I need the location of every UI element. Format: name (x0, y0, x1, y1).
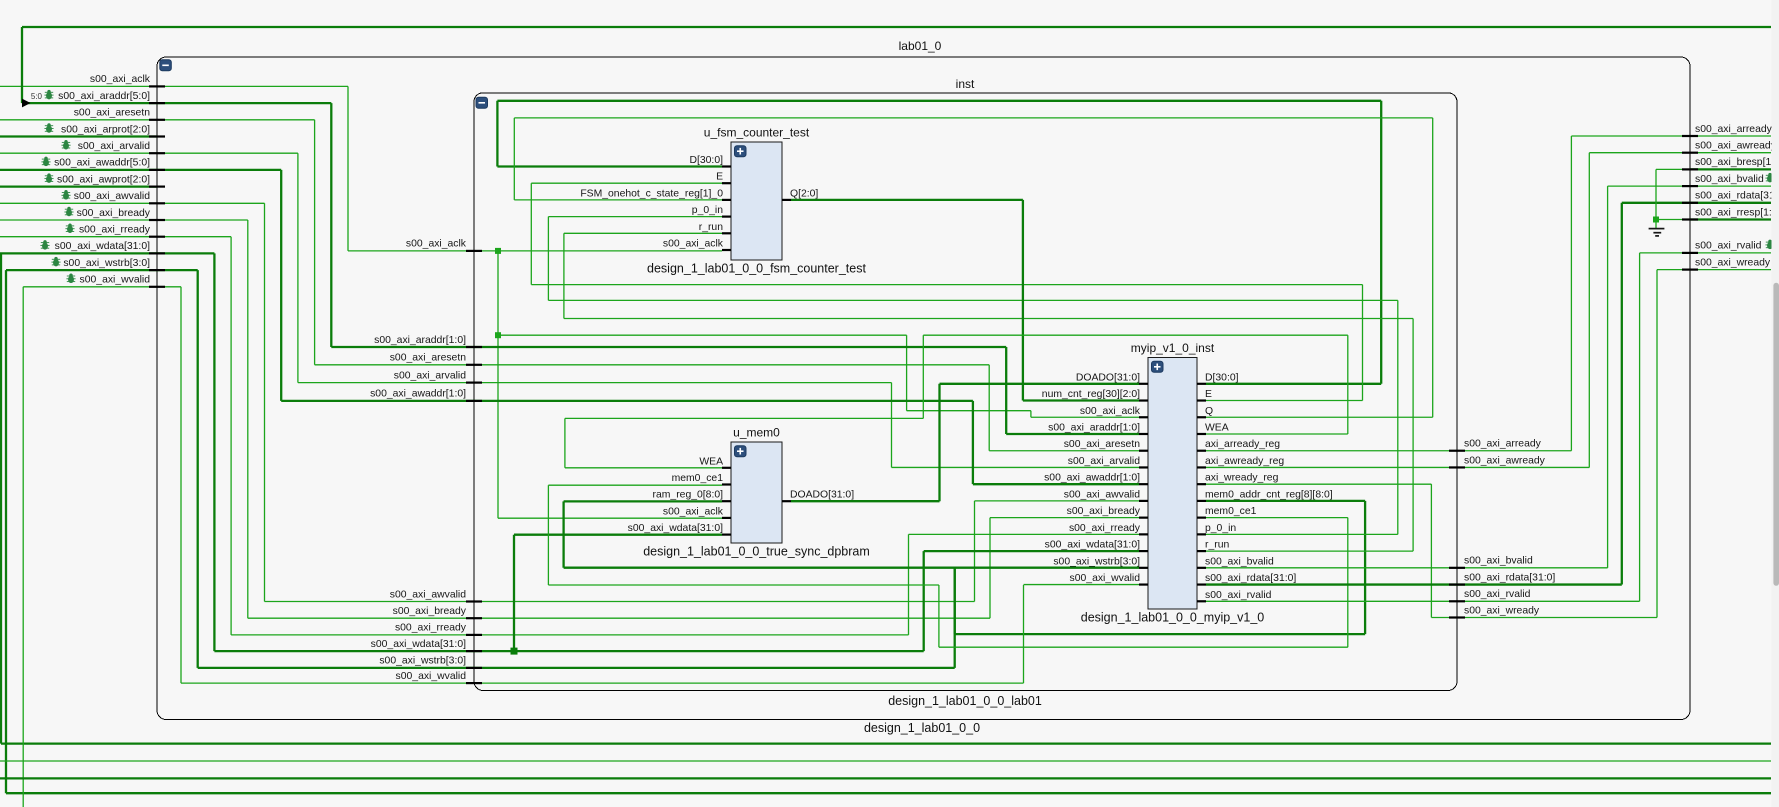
wire s00_axi_wvalid net (23, 286, 157, 288)
svg-text:s00_axi_wvalid: s00_axi_wvalid (1070, 573, 1141, 584)
block u_mem0 (731, 442, 782, 543)
svg-text:s00_axi_rready: s00_axi_rready (1069, 523, 1141, 534)
wire s00_axi_araddr bus (22, 102, 157, 104)
svg-text:s00_axi_aclk: s00_axi_aclk (663, 239, 724, 250)
svg-text:s00_axi_awprot[2:0]: s00_axi_awprot[2:0] (57, 174, 150, 185)
svg-text:axi_awready_reg: axi_awready_reg (1205, 456, 1284, 467)
svg-text:lab01_0: lab01_0 (899, 39, 942, 53)
svg-text:r_run: r_run (1205, 540, 1229, 551)
pins myip_v1_0_inst left (1139, 383, 1148, 385)
wire mem0_ce1 row net (548, 584, 939, 586)
svg-text:Q: Q (1205, 406, 1213, 417)
wire thin U net (938, 585, 940, 647)
wire rvalid net (1206, 600, 1640, 602)
wire s00_axi_awprot stub (0, 185, 157, 187)
svg-text:design_1_lab01_0_0_fsm_counter: design_1_lab01_0_0_fsm_counter_test (647, 262, 866, 276)
wire s00_axi_arvalid net (0, 152, 157, 154)
svg-text:s00_axi_awready: s00_axi_awready (1464, 455, 1546, 466)
block u_fsm_counter_test (731, 142, 782, 260)
svg-text:Q[2:0]: Q[2:0] (790, 188, 818, 199)
svg-text:E: E (716, 172, 723, 183)
wire s00_axi_awvalid net (0, 202, 157, 204)
svg-text:s00_axi_araddr[5:0]: s00_axi_araddr[5:0] (58, 91, 150, 102)
svg-text:s00_axi_rvalid: s00_axi_rvalid (1695, 241, 1762, 252)
pins u_fsm_counter_test right (782, 199, 791, 201)
svg-text:inst: inst (956, 77, 975, 91)
svg-text:s00_axi_wready: s00_axi_wready (1464, 605, 1540, 616)
svg-text:s00_axi_aresetn: s00_axi_aresetn (74, 108, 150, 119)
wire s00_axi_arprot stub (0, 135, 157, 137)
svg-text:num_cnt_reg[30][2:0]: num_cnt_reg[30][2:0] (1042, 389, 1140, 400)
wire fsm Q out bus (791, 199, 1023, 201)
wire wvalid bottom wrap net (22, 287, 24, 807)
wire s00_axi_wdata bus (0, 252, 157, 254)
svg-text:E: E (1205, 389, 1212, 400)
debug bug rvalid (1765, 240, 1774, 249)
wire wdata bottom wrap bus (0, 253, 2, 743)
collapse button inner (476, 97, 488, 108)
svg-text:p_0_in: p_0_in (692, 205, 723, 216)
svg-text:s00_axi_awaddr[1:0]: s00_axi_awaddr[1:0] (370, 389, 466, 400)
svg-text:s00_axi_rvalid: s00_axi_rvalid (1464, 589, 1531, 600)
svg-text:r_run: r_run (699, 222, 723, 233)
svg-text:s00_axi_awready: s00_axi_awready (1695, 141, 1777, 152)
svg-text:FSM_onehot_c_state_reg[1]_0: FSM_onehot_c_state_reg[1]_0 (580, 188, 723, 199)
svg-text:s00_axi_wdata[31:0]: s00_axi_wdata[31:0] (1045, 540, 1140, 551)
svg-text:design_1_lab01_0_0_myip_v1_0: design_1_lab01_0_0_myip_v1_0 (1081, 610, 1265, 624)
svg-text:p_0_in: p_0_in (1205, 523, 1236, 534)
wire s00_axi_rready net (0, 236, 157, 238)
svg-text:s00_axi_arvalid: s00_axi_arvalid (1068, 456, 1140, 467)
scrollbar track (1772, 0, 1779, 807)
svg-text:s00_axi_wvalid: s00_axi_wvalid (396, 671, 467, 682)
svg-text:s00_axi_wdata[31:0]: s00_axi_wdata[31:0] (371, 639, 466, 650)
wire s00_axi_awaddr bus (0, 169, 157, 171)
inner left pin ticks (466, 250, 482, 252)
svg-text:axi_wready_reg: axi_wready_reg (1205, 473, 1279, 484)
wire mem0_ce1 out net (1206, 517, 1348, 519)
wire fsm r_run net (564, 232, 722, 234)
svg-text:s00_axi_rdata[31:0]: s00_axi_rdata[31:0] (1205, 573, 1296, 584)
svg-text:DOADO[31:0]: DOADO[31:0] (1076, 372, 1140, 383)
svg-text:s00_axi_awaddr[1:0]: s00_axi_awaddr[1:0] (1044, 473, 1140, 484)
svg-text:s00_axi_wvalid: s00_axi_wvalid (80, 275, 151, 286)
svg-text:WEA: WEA (1205, 422, 1229, 433)
pins u_mem0 left (722, 467, 731, 469)
svg-text:s00_axi_bready: s00_axi_bready (393, 606, 467, 617)
svg-text:s00_axi_bvalid: s00_axi_bvalid (1464, 556, 1533, 567)
wire DOADO bus (791, 500, 940, 502)
wire araddr top wrap bus (22, 26, 1771, 28)
svg-text:s00_axi_rdata[31:0]: s00_axi_rdata[31:0] (1464, 572, 1555, 583)
svg-text:axi_arready_reg: axi_arready_reg (1205, 439, 1280, 450)
svg-text:D[30:0]: D[30:0] (689, 155, 723, 166)
block myip_v1_0_inst (1148, 358, 1197, 609)
hierarchy box inst (474, 93, 1457, 691)
svg-text:s00_axi_wdata[31:0]: s00_axi_wdata[31:0] (628, 523, 723, 534)
svg-text:s00_axi_bready: s00_axi_bready (77, 208, 151, 219)
svg-text:s00_axi_aresetn: s00_axi_aresetn (1064, 439, 1140, 450)
svg-text:s00_axi_arvalid: s00_axi_arvalid (394, 370, 466, 381)
svg-text:s00_axi_araddr[1:0]: s00_axi_araddr[1:0] (374, 335, 466, 346)
collapse button outer (160, 60, 172, 71)
wire arready net (1206, 450, 1571, 452)
wire fsm FSM_onehot net (514, 199, 722, 201)
wire fsm p_0_in net (548, 216, 722, 218)
svg-text:s00_axi_rdata[31:0]: s00_axi_rdata[31:0] (1695, 191, 1779, 202)
svg-text:s00_axi_arready: s00_axi_arready (1695, 124, 1773, 135)
fan-in arrow araddr (22, 99, 31, 108)
debug bug bvalid (1765, 173, 1774, 182)
wire mem0_addr_cnt bus (1206, 500, 1365, 502)
wire bvalid net (1206, 567, 1608, 569)
wire bottom track2 net (0, 760, 1771, 762)
svg-text:design_1_lab01_0_0_lab01: design_1_lab01_0_0_lab01 (888, 694, 1042, 708)
svg-text:DOADO[31:0]: DOADO[31:0] (790, 490, 854, 501)
svg-text:s00_axi_bresp[1:0]: s00_axi_bresp[1:0] (1695, 157, 1779, 168)
svg-text:mem0_ce1: mem0_ce1 (672, 473, 724, 484)
svg-text:s00_axi_wstrb[3:0]: s00_axi_wstrb[3:0] (1053, 556, 1140, 567)
svg-text:u_mem0: u_mem0 (733, 426, 780, 440)
hierarchy box lab01_0 (157, 57, 1690, 720)
wire fsm D bus (497, 100, 1381, 102)
svg-text:s00_axi_wstrb[3:0]: s00_axi_wstrb[3:0] (379, 656, 466, 667)
svg-text:myip_v1_0_inst: myip_v1_0_inst (1131, 341, 1215, 355)
wire wready net (1206, 483, 1431, 485)
wire bresp ground net (1655, 169, 1657, 219)
svg-text:mem0_ce1: mem0_ce1 (1205, 506, 1257, 517)
svg-text:s00_axi_aclk: s00_axi_aclk (90, 74, 151, 85)
wire s00_axi_bready net (0, 219, 157, 221)
svg-text:s00_axi_rready: s00_axi_rready (79, 225, 151, 236)
svg-text:s00_axi_bready: s00_axi_bready (1067, 506, 1141, 517)
pins u_mem0 right (782, 500, 791, 502)
wire fsm E net (531, 182, 722, 184)
wire rdata bus (1206, 583, 1622, 585)
wire ram_reg wstrb row bus (564, 567, 1139, 569)
svg-text:s00_axi_aresetn: s00_axi_aresetn (390, 353, 466, 364)
outer right pin ticks (1682, 135, 1698, 137)
svg-text:s00_axi_bvalid: s00_axi_bvalid (1205, 556, 1274, 567)
inner right pin ticks (1449, 450, 1465, 452)
svg-text:5:0: 5:0 (31, 92, 43, 101)
svg-text:s00_axi_arready: s00_axi_arready (1464, 439, 1542, 450)
pins u_fsm_counter_test left (722, 165, 731, 167)
wire s00_axi_wstrb bus (6, 269, 157, 271)
svg-text:mem0_addr_cnt_reg[8][8:0]: mem0_addr_cnt_reg[8][8:0] (1205, 489, 1333, 500)
wire wstrb bottom wrap bus (5, 270, 7, 793)
svg-text:s00_axi_aclk: s00_axi_aclk (1080, 406, 1141, 417)
wire bottom track3 bus (0, 777, 1771, 779)
wire WEA net (1206, 433, 1348, 435)
svg-text:s00_axi_aclk: s00_axi_aclk (406, 239, 467, 250)
svg-text:s00_axi_wstrb[3:0]: s00_axi_wstrb[3:0] (63, 258, 150, 269)
ground symbol (1655, 220, 1657, 229)
svg-text:s00_axi_aclk: s00_axi_aclk (663, 506, 724, 517)
svg-text:design_1_lab01_0_0: design_1_lab01_0_0 (864, 721, 980, 735)
svg-text:ram_reg_0[8:0]: ram_reg_0[8:0] (653, 490, 724, 501)
svg-text:s00_axi_arprot[2:0]: s00_axi_arprot[2:0] (61, 124, 150, 135)
outer left pin ticks (149, 85, 165, 87)
scrollbar thumb (1773, 283, 1779, 586)
wire awready net (1206, 466, 1589, 468)
svg-text:s00_axi_awvalid: s00_axi_awvalid (74, 191, 150, 202)
svg-text:s00_axi_rvalid: s00_axi_rvalid (1205, 590, 1272, 601)
svg-text:s00_axi_awvalid: s00_axi_awvalid (390, 589, 466, 600)
svg-text:s00_axi_wdata[31:0]: s00_axi_wdata[31:0] (55, 241, 150, 252)
wire s00_axi_aresetn net (0, 119, 157, 121)
svg-text:s00_axi_arvalid: s00_axi_arvalid (78, 141, 150, 152)
wire mid U bus (954, 568, 956, 634)
svg-text:D[30:0]: D[30:0] (1205, 372, 1239, 383)
svg-text:s00_axi_bvalid: s00_axi_bvalid (1695, 174, 1764, 185)
svg-text:s00_axi_rresp[1:0]: s00_axi_rresp[1:0] (1695, 207, 1779, 218)
svg-text:s00_axi_rready: s00_axi_rready (395, 623, 467, 634)
pins myip_v1_0_inst right (1197, 383, 1206, 385)
svg-text:s00_axi_awaddr[5:0]: s00_axi_awaddr[5:0] (54, 158, 150, 169)
svg-text:u_fsm_counter_test: u_fsm_counter_test (704, 126, 810, 140)
svg-text:s00_axi_araddr[1:0]: s00_axi_araddr[1:0] (1048, 422, 1140, 433)
svg-text:design_1_lab01_0_0_true_sync_d: design_1_lab01_0_0_true_sync_dpbram (643, 545, 870, 559)
svg-text:s00_axi_awvalid: s00_axi_awvalid (1064, 489, 1140, 500)
wire s00_axi_aclk net (0, 85, 157, 87)
svg-text:s00_axi_wready: s00_axi_wready (1695, 257, 1771, 268)
svg-text:WEA: WEA (699, 456, 723, 467)
